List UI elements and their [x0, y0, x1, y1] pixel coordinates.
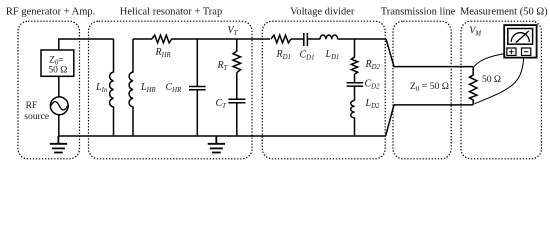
voltmeter gauge arc — [511, 33, 529, 42]
capacitor C_HR — [189, 39, 206, 136]
voltmeter plus terminal — [507, 48, 516, 55]
wire: measurement probe bottom curve — [475, 55, 524, 103]
wire: transmission line bottom taper — [386, 105, 474, 136]
dashed box: Helical resonator section — [89, 21, 253, 159]
wire: C_D1 to L_D1 — [308, 38, 320, 40]
wire: measurement probe top curve — [474, 53, 507, 66]
svg-text:source: source — [24, 112, 49, 122]
AC source sine — [51, 102, 68, 110]
voltmeter needle — [516, 31, 529, 43]
inductor L_HR — [129, 39, 133, 136]
wire: R_HR to voltage divider (through V_T node) — [171, 38, 270, 40]
wire: L_D1 to transmission line — [338, 38, 386, 40]
voltmeter screen — [508, 29, 533, 45]
AC source circle — [50, 97, 68, 115]
voltmeter outer box — [504, 25, 536, 58]
svg-text:Voltage divider: Voltage divider — [290, 7, 355, 18]
capacitor C_T — [228, 73, 245, 137]
dashed box: RF generator section — [18, 21, 80, 159]
ground (helical resonator) — [208, 136, 225, 153]
ground (RF source) — [50, 136, 67, 153]
inductor L_In — [110, 39, 114, 136]
wire: top rail RF generator (Z0 top to L_In top) — [59, 39, 114, 50]
svg-text:RF: RF — [26, 101, 38, 111]
capacitor C_D2 — [347, 74, 364, 101]
svg-text:Helical resonator + Trap: Helical resonator + Trap — [120, 7, 222, 18]
resistor R_HR — [152, 35, 172, 43]
dashed box: Transmission line section — [393, 21, 451, 159]
wire: Z0 box bottom to source top — [58, 76, 60, 97]
dashed box: Voltage divider section — [262, 21, 385, 159]
resistor R_D1 — [271, 35, 291, 43]
wire: helical resonator top rail — [133, 38, 152, 40]
dashed box: Measurement section — [461, 21, 541, 159]
inductor L_D2 — [351, 101, 355, 137]
resistor R_T — [233, 39, 241, 73]
wire: bottom ground rail — [58, 135, 385, 137]
svg-text:Transmission line: Transmission line — [381, 7, 456, 18]
resistor R_D2 — [351, 39, 357, 74]
wire: transmission line top taper — [386, 39, 473, 67]
inductor L_D1 — [320, 35, 338, 39]
svg-text:RF generator + Amp.: RF generator + Amp. — [6, 7, 95, 18]
svg-text:Z0 = 50 Ω: Z0 = 50 Ω — [410, 81, 449, 93]
voltmeter minus terminal — [522, 48, 531, 55]
wire: source bottom to ground rail — [58, 115, 60, 136]
svg-text:50 Ω: 50 Ω — [482, 75, 501, 85]
wire: R_D1 to C_D1 — [291, 38, 303, 40]
impedance box Z0 = 50 ohm — [41, 50, 74, 76]
capacitor C_D1 — [304, 33, 308, 46]
svg-text:Measurement (50 Ω): Measurement (50 Ω) — [460, 7, 548, 18]
svg-text:50 Ω: 50 Ω — [48, 66, 67, 76]
resistor 50 ohm load — [470, 67, 477, 105]
